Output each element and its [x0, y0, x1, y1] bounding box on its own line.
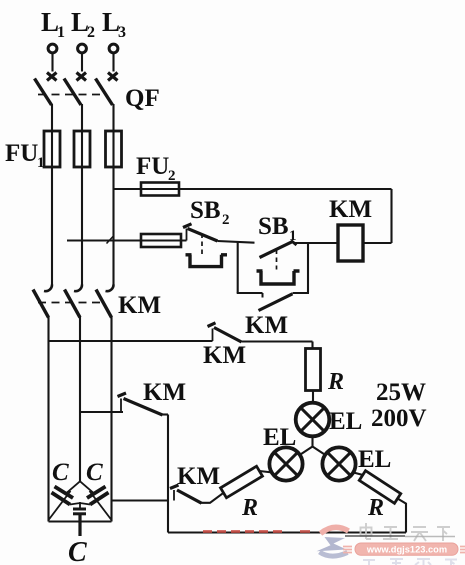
- wire phase3 lower: [110, 317, 112, 522]
- wire bottom rail: [168, 531, 406, 533]
- terminal L2: [78, 44, 87, 53]
- pushbutton SB2 actuator head: [186, 255, 228, 267]
- capacitor C right plates: [87, 487, 109, 505]
- wire SB2 to SB1: [218, 241, 255, 243]
- terminal L1: [48, 44, 57, 53]
- pushbutton SB2 actuator link dashed: [201, 234, 203, 256]
- contact KM self-holding left wire: [237, 292, 263, 294]
- breaker QF label: [125, 85, 160, 112]
- terminal L3: [109, 44, 118, 53]
- lamp EL top label: [329, 408, 362, 435]
- svg-text:SB: SB: [190, 197, 221, 224]
- contactor KM pole1 blade: [33, 290, 49, 318]
- svg-text:QF: QF: [125, 85, 160, 112]
- breaker QF pole 3 contact cross: [108, 73, 118, 81]
- svg-text:KM: KM: [245, 312, 288, 339]
- watermark text dian: [361, 523, 372, 539]
- svg-text:KM: KM: [118, 292, 161, 319]
- coil KM label: [329, 196, 372, 223]
- capacitor C bottom lead: [78, 514, 81, 536]
- breaker QF pole 2 contact cross: [77, 73, 87, 81]
- wire L2 lead: [81, 53, 83, 71]
- wire SB1 to coil: [295, 242, 338, 244]
- lamp EL top: [296, 403, 330, 437]
- wire left lamp to resistor: [260, 471, 273, 473]
- svg-text:R: R: [367, 495, 384, 521]
- contact KM line label: [203, 342, 246, 369]
- wire right lamp to resistor: [354, 473, 364, 476]
- svg-text:EL: EL: [263, 424, 296, 451]
- fuse FU2 lower: [141, 234, 181, 247]
- svg-text:FU: FU: [5, 140, 38, 167]
- pushbutton SB2 NC tick: [183, 224, 192, 228]
- resistor R left label: [241, 495, 258, 521]
- contact KM lamp stub: [173, 490, 175, 501]
- wire left return riser: [167, 415, 169, 533]
- fuse FU2 label: [136, 153, 176, 184]
- wire phase2 QF to contactor: [81, 104, 83, 285]
- contactor KM pole2 hook: [74, 285, 82, 292]
- capacitor C left plates: [52, 487, 74, 505]
- resistor R top label: [327, 369, 344, 395]
- svg-text:C: C: [52, 459, 69, 486]
- contact KM capacitor tick: [118, 393, 127, 397]
- contact KM self-holding right wire: [293, 292, 310, 294]
- wire phase2 fork: [66, 481, 95, 494]
- svg-text:C: C: [68, 537, 87, 565]
- resistor R left (slanted): [221, 466, 263, 497]
- svg-text:KM: KM: [177, 463, 220, 490]
- pushbutton SB2 NC stub: [186, 229, 188, 241]
- wire coil to right riser: [363, 242, 392, 244]
- wire resistor to lamp: [312, 391, 314, 404]
- contact KM self-holding left stub: [262, 293, 264, 298]
- contact KM line blade: [214, 328, 242, 343]
- pushbutton SB1 label: [258, 213, 297, 244]
- svg-text:1: 1: [57, 24, 65, 41]
- fuse FU1 pole3: [106, 131, 122, 167]
- breaker QF pole 2 blade: [64, 79, 81, 106]
- lamp EL left: [269, 447, 302, 480]
- crossing mark at phase3: [107, 237, 114, 244]
- wire resistor right to rail: [398, 499, 407, 533]
- lamp EL right: [322, 447, 355, 480]
- wire star point connectors: [70, 502, 90, 509]
- fuse FU1 label: [5, 140, 45, 171]
- svg-text:C: C: [86, 459, 103, 486]
- wire L3 lead: [112, 53, 114, 71]
- capacitor C left label: [52, 459, 69, 486]
- svg-text:200V: 200V: [371, 405, 427, 432]
- contact KM lamp blade: [177, 490, 202, 503]
- capacitor C right lead from corner: [90, 491, 112, 520]
- contact KM lamp tick: [170, 485, 179, 489]
- breaker QF pole 1 contact cross: [47, 73, 57, 81]
- watermark url box: [343, 543, 465, 565]
- contact KM line tick: [208, 323, 216, 327]
- contact KM line stub: [212, 329, 214, 342]
- capacitor C bottom plates: [73, 509, 86, 514]
- svg-text:R: R: [241, 495, 258, 521]
- wire resistor to contact corner: [201, 493, 224, 503]
- node L3 label: [102, 7, 126, 41]
- contactor KM pole2 blade: [65, 290, 81, 318]
- wire L1 lead: [51, 53, 53, 71]
- breaker QF pole 3 blade: [96, 79, 113, 106]
- wire lamp feeder right: [242, 340, 313, 342]
- rating label 200V: [371, 405, 427, 432]
- pushbutton SB1 actuator head: [257, 271, 300, 284]
- fuse FU1 pole1: [44, 131, 60, 167]
- wire phase1 QF to contactor: [51, 104, 53, 285]
- wire lamp feeder left: [49, 340, 213, 342]
- svg-text:SB: SB: [258, 213, 289, 240]
- svg-text:EL: EL: [329, 408, 362, 435]
- watermark underline: [345, 535, 405, 537]
- contactor KM linkage dashed: [38, 302, 104, 304]
- svg-text:2: 2: [87, 24, 95, 41]
- wire phase3 QF to contactor: [112, 104, 114, 285]
- watermark red dashed overlay: [203, 530, 282, 533]
- svg-text:R: R: [327, 369, 344, 395]
- contact KM capacitor wire: [80, 411, 123, 413]
- node L2 label: [71, 7, 95, 41]
- svg-text:KM: KM: [329, 196, 372, 223]
- rating label 25W: [376, 379, 426, 406]
- contact KM self-holding label: [245, 312, 288, 339]
- wire star node: [300, 437, 325, 455]
- contact KM self-holding blade: [259, 294, 293, 311]
- watermark text xia: [437, 527, 450, 541]
- contact KM capacitor stub: [120, 399, 122, 413]
- resistor R right (slanted): [359, 471, 400, 504]
- pushbutton SB2 label: [190, 197, 230, 228]
- contactor KM pole3 blade: [96, 290, 112, 318]
- watermark text tian: [411, 527, 428, 541]
- contactor KM label: [118, 292, 161, 319]
- contactor KM pole1 hook: [44, 285, 52, 292]
- watermark text gong: [383, 527, 398, 539]
- coil KM: [338, 225, 363, 261]
- pushbutton SB1 NO blade: [260, 241, 294, 257]
- svg-text:KM: KM: [203, 342, 246, 369]
- capacitor C right label: [86, 459, 103, 486]
- contact KM lamp label: [177, 463, 220, 490]
- svg-text:2: 2: [222, 212, 230, 228]
- svg-text:1: 1: [37, 155, 45, 171]
- lamp EL right label: [358, 446, 391, 473]
- svg-text:2: 2: [168, 168, 176, 184]
- breaker QF linkage dashed: [38, 94, 106, 96]
- svg-text:www.dgjs123.com: www.dgjs123.com: [366, 544, 447, 554]
- svg-text:3: 3: [118, 24, 126, 41]
- node L1 label: [41, 7, 65, 41]
- lamp EL left label: [263, 424, 296, 451]
- wire capbank to junction: [112, 499, 169, 501]
- wire capbank bottom: [49, 520, 112, 522]
- svg-text:EL: EL: [358, 446, 391, 473]
- wire feeder to resistor: [311, 342, 313, 349]
- svg-text:25W: 25W: [376, 379, 426, 406]
- resistor R top: [306, 349, 321, 391]
- pushbutton SB1 actuator link dashed: [276, 250, 278, 270]
- fuse FU2 upper: [141, 183, 179, 196]
- resistor R right label: [367, 495, 384, 521]
- contact KM capacitor blade: [124, 399, 163, 416]
- capacitor C left lead from corner: [49, 491, 71, 520]
- fuse FU1 pole2: [74, 131, 90, 167]
- watermark logo swoosh: [317, 527, 349, 556]
- wire right riser: [390, 189, 392, 243]
- capacitor C bottom label: [68, 537, 87, 565]
- node junction right of SB1: [307, 243, 309, 293]
- svg-text:KM: KM: [143, 379, 186, 406]
- pushbutton SB2 NC blade: [188, 229, 218, 242]
- svg-text:FU: FU: [136, 153, 169, 180]
- node junction left of SB1: [237, 243, 239, 294]
- wire control lower rail from phase2: [67, 239, 187, 241]
- breaker QF pole 1 blade: [35, 79, 52, 106]
- wire control top rail from phase3: [114, 188, 392, 190]
- wire phase2 lower: [79, 317, 81, 482]
- contact KM capacitor corner: [162, 413, 168, 415]
- pushbutton SB1 NO tick: [291, 241, 297, 246]
- contact KM capacitor label: [143, 379, 186, 406]
- wire phase1 lower: [47, 317, 49, 522]
- contactor KM pole3 hook: [106, 285, 114, 292]
